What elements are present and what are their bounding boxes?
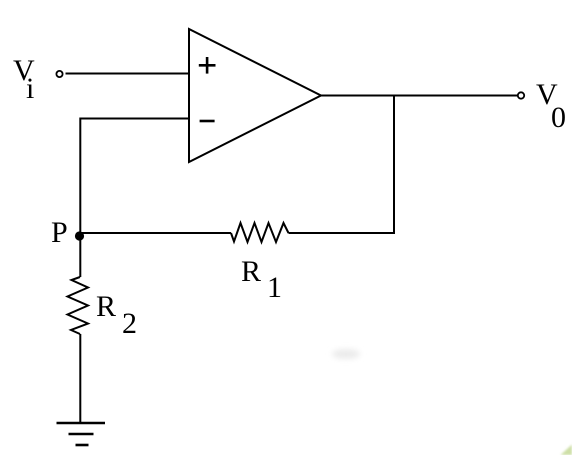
resistor R1 (zigzag): [231, 223, 289, 242]
wire: node P to resistor R1: [80, 232, 231, 234]
svg-text:R: R: [96, 290, 116, 323]
svg-text:1: 1: [267, 271, 282, 304]
faint smudge artifact: [332, 349, 360, 359]
svg-text:R: R: [241, 255, 261, 288]
wire: op-amp output: [320, 95, 518, 97]
output terminal (open circle): [518, 92, 524, 98]
op-amp U1: [189, 29, 321, 162]
svg-text:2: 2: [122, 307, 137, 340]
op-amp - pin mark: [200, 120, 215, 123]
input terminal (open circle): [56, 71, 62, 77]
wire: resistor R2 to ground: [79, 334, 81, 423]
wire: node P down to resistor R2: [79, 236, 81, 277]
wire: resistor R1 to feedback corner: [289, 232, 396, 234]
op-amp + pin mark: [199, 57, 216, 74]
wire: input to op-amp +: [66, 73, 190, 75]
ground: [57, 423, 106, 445]
wire: op-amp - input to left corner: [80, 118, 189, 120]
node P junction dot: [75, 231, 84, 240]
green corner artifact: [561, 445, 572, 455]
wire: feedback vertical: [393, 95, 395, 233]
resistor R2 (vertical zigzag): [68, 277, 89, 334]
svg-text:P: P: [51, 216, 68, 249]
wire: corner down to node P: [79, 118, 81, 234]
svg-text:0: 0: [551, 101, 566, 134]
svg-text:i: i: [26, 72, 34, 105]
